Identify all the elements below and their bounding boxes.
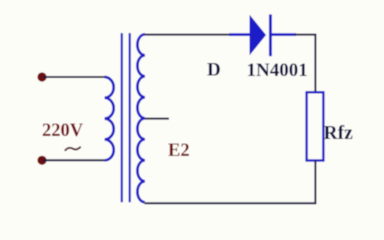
wire: resistor bottom to secondary bottom, with corner [145,161,316,204]
wire: bottom-left terminal to primary winding [43,159,105,161]
svg-text:Rfz: Rfz [324,123,354,144]
svg-text:1N4001: 1N4001 [247,60,308,81]
terminal dot bottom-left [37,156,46,165]
transformer core line left [121,33,123,202]
wire: diode to resistor top, with corner [295,35,315,93]
label ~ (AC symbol) [65,147,80,150]
svg-text:D: D [207,60,221,81]
center tap stub on secondary [145,118,169,120]
transformer secondary winding E2 [137,34,145,202]
diode D 1N4001 anode lead [229,33,250,36]
diode D 1N4001 cathode lead [272,33,297,36]
terminal dot top-left [37,72,46,81]
svg-text:220V: 220V [42,121,84,141]
svg-text:E2: E2 [168,141,190,161]
wire: secondary top to diode anode [145,34,230,36]
diode D 1N4001 triangle [250,15,267,56]
transformer core line right [129,33,131,202]
resistor Rfz body [307,92,324,160]
transformer primary winding [105,77,114,160]
diode D 1N4001 cathode bar [269,14,272,56]
wire: top-left terminal to primary winding [43,76,105,78]
